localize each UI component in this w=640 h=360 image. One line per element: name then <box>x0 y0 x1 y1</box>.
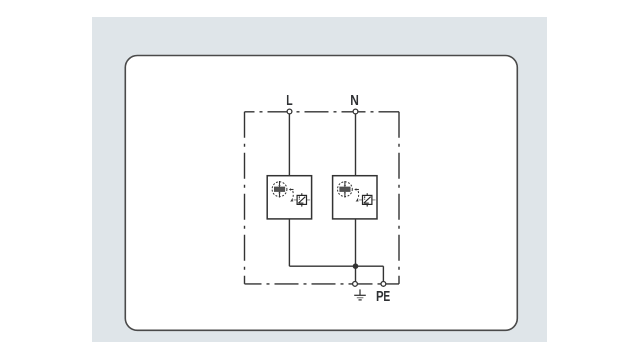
svg-text:L: L <box>286 93 292 109</box>
svg-text:E: E <box>383 289 390 305</box>
svg-text:N: N <box>350 93 359 109</box>
